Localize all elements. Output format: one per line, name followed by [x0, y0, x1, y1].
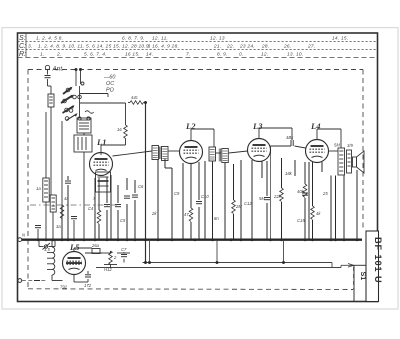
svg-text:7.: 7.	[186, 51, 191, 57]
svg-text:C:: C:	[19, 43, 26, 50]
svg-text:L1: L1	[96, 137, 106, 147]
svg-text:Ant.: Ant.	[52, 66, 64, 73]
svg-text:44c: 44c	[131, 95, 139, 100]
svg-text:C4: C4	[88, 206, 94, 211]
svg-text:26.: 26.	[283, 43, 291, 49]
svg-text:12. 13: 12. 13	[210, 35, 225, 41]
svg-text:C12: C12	[244, 201, 252, 206]
svg-text:2M: 2M	[235, 204, 242, 209]
svg-text:4Bk: 4Bk	[286, 135, 294, 140]
svg-text:16 15.: 16 15.	[125, 51, 140, 57]
svg-text:BF 101 U: BF 101 U	[373, 237, 383, 284]
svg-text:28.: 28.	[261, 43, 269, 49]
svg-text:L3: L3	[252, 121, 263, 131]
svg-text:5M: 5M	[259, 196, 265, 201]
svg-text:12.: 12.	[261, 51, 268, 57]
svg-text:18k: 18k	[285, 171, 293, 176]
svg-text:16: 16	[117, 127, 122, 132]
svg-text:2k: 2k	[151, 211, 157, 216]
svg-text:C5: C5	[120, 218, 126, 223]
svg-text:5. 6. 7. 4.: 5. 6. 7. 4.	[84, 51, 107, 57]
svg-text:PO: PO	[106, 88, 115, 94]
svg-text:L5: L5	[69, 242, 80, 252]
svg-text:C9: C9	[174, 191, 180, 196]
svg-text:1a: 1a	[36, 186, 41, 191]
svg-text:1. 2. 4. 5 8.: 1. 2. 4. 5 8.	[36, 35, 63, 41]
svg-text:25: 25	[322, 191, 328, 196]
svg-text:27.: 27.	[307, 43, 315, 49]
svg-text:8. 9.: 8. 9.	[217, 51, 228, 57]
svg-text:C10: C10	[201, 194, 209, 199]
svg-text:6. 8. 7. 9.: 6. 8. 7. 9.	[122, 35, 145, 41]
svg-text:14. 15.: 14. 15.	[332, 35, 348, 41]
svg-text:23 24.: 23 24.	[239, 43, 255, 49]
svg-text:L4: L4	[310, 121, 320, 131]
svg-text:792: 792	[60, 285, 68, 290]
svg-text:40k: 40k	[297, 189, 305, 194]
svg-text:47: 47	[184, 212, 189, 217]
svg-text:3/9: 3/9	[347, 143, 353, 148]
svg-text:1.: 1.	[40, 51, 45, 57]
svg-text:172: 172	[84, 283, 92, 288]
svg-text:5M: 5M	[334, 143, 340, 148]
svg-text:21.: 21.	[213, 43, 221, 49]
svg-text:1. 2. 4. 8. 9. 10. 11. 5. 6: 1. 2. 4. 8. 9. 10. 11. 5. 6 14. 25 15. 1…	[38, 43, 150, 49]
svg-text:3.: 3.	[28, 43, 33, 49]
svg-text:—60: —60	[103, 75, 115, 81]
svg-text:22.: 22.	[226, 43, 234, 49]
svg-text:C7: C7	[121, 247, 127, 252]
svg-text:26a: 26a	[91, 243, 100, 248]
svg-text:H12: H12	[104, 267, 112, 272]
svg-text:14.: 14.	[146, 51, 153, 57]
svg-text:0.: 0.	[239, 51, 244, 57]
svg-text:R:: R:	[19, 51, 26, 58]
svg-text:C6: C6	[138, 184, 144, 189]
svg-text:13. 10.: 13. 10.	[287, 51, 303, 57]
svg-text:OC: OC	[106, 81, 114, 87]
svg-text:12. 11.: 12. 11.	[152, 35, 168, 41]
svg-text:22k: 22k	[273, 194, 282, 199]
svg-text:C15: C15	[297, 218, 305, 223]
svg-text:3a: 3a	[56, 224, 61, 229]
svg-text:9. 16. 4. 9 28.: 9. 16. 4. 9 28.	[146, 43, 179, 49]
svg-text:S:: S:	[19, 35, 26, 42]
svg-text:S1: S1	[359, 272, 368, 281]
svg-text:8n: 8n	[214, 216, 219, 221]
svg-text:4a: 4a	[64, 196, 69, 201]
svg-text:2.: 2.	[56, 51, 62, 57]
